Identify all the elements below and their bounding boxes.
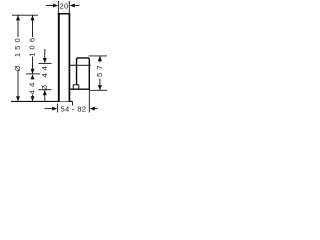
concealed body stub below plate [72, 101, 74, 105]
dimension diameter 44 upper arrowhead [43, 58, 47, 63]
escutcheon plate body (white fill) [59, 14, 70, 102]
dimension diameter 44 upper leader line [44, 49, 46, 59]
dimension diameter 106 line lower segment [32, 57, 34, 74]
dimension diameter 150 line upper segment [17, 15, 19, 37]
dimension 54-82 right leader line [94, 108, 98, 110]
handle neck top edge [69, 64, 77, 66]
dimension 57 line upper segment [99, 56, 101, 63]
dimension 20 right leader line [75, 5, 80, 7]
dimension 57 top arrowhead [98, 56, 102, 61]
svg-text:57: 57 [95, 62, 104, 77]
dimension diameter 150 bottom arrowhead [16, 96, 20, 101]
dimension 54-82 right arrowhead [90, 107, 95, 111]
escutcheon plate top edge [58, 13, 70, 15]
svg-text:54 - 82: 54 - 82 [61, 104, 87, 113]
dimension 54-82 extension line left [57, 104, 59, 113]
dimension diameter 44 lower leader line [44, 95, 46, 101]
extension line 57 top reference [89, 55, 108, 57]
handle select button [73, 85, 79, 89]
dimension diameter 150 line lower segment [17, 71, 19, 101]
dimension 57 bottom arrowhead [98, 85, 102, 90]
escutcheon plate wall-side right edge [68, 13, 70, 101]
dimension diameter 150 top arrowhead [16, 15, 20, 20]
dimension 20 left leader line [46, 5, 53, 7]
dimension 20 extension line left [58, 1, 60, 14]
dimension 44 top arrowhead [31, 74, 35, 79]
dimension diameter 106 top arrowhead [31, 15, 35, 20]
svg-text:Ø 150: Ø 150 [13, 35, 22, 71]
dimension 54-82 left leader line [45, 108, 54, 110]
dimension 20 right arrowhead [70, 4, 75, 8]
dimension 20 left arrowhead [53, 4, 58, 8]
escutcheon plate front face left edge [58, 13, 60, 101]
handle bottom edge [69, 88, 90, 90]
extension line 57 bottom reference [89, 89, 107, 91]
svg-text:44: 44 [28, 79, 37, 94]
dimension diameter 106 bottom arrowhead [31, 69, 35, 74]
dimension 44 line lower segment [32, 95, 34, 102]
dimension 20 extension line right [68, 1, 70, 14]
extension line diameter-44 top reference [39, 62, 52, 64]
dimension 54-82 left arrowhead [52, 107, 57, 111]
svg-text:106: 106 [28, 35, 37, 57]
extension line bottom (plate bottom edge extended left) [11, 100, 73, 102]
handle parting line [77, 64, 91, 66]
svg-text:Ø 44: Ø 44 [40, 64, 49, 91]
handle knob cap outline [77, 58, 90, 89]
dimension diameter 44 lower arrowhead [43, 90, 47, 95]
dimension 44 bottom arrowhead [31, 96, 35, 101]
dimension 54-82 extension line right (handle face extended) [88, 90, 90, 112]
svg-text:20: 20 [59, 2, 68, 11]
extension line diameter-44 bottom reference [39, 89, 52, 91]
extension line mid (106/44 shared reference) [26, 73, 40, 75]
dimension diameter 106 line upper segment [32, 15, 34, 37]
extension line top (plate top edge extended left) [12, 14, 38, 16]
dimension 57 line lower segment [99, 79, 101, 91]
